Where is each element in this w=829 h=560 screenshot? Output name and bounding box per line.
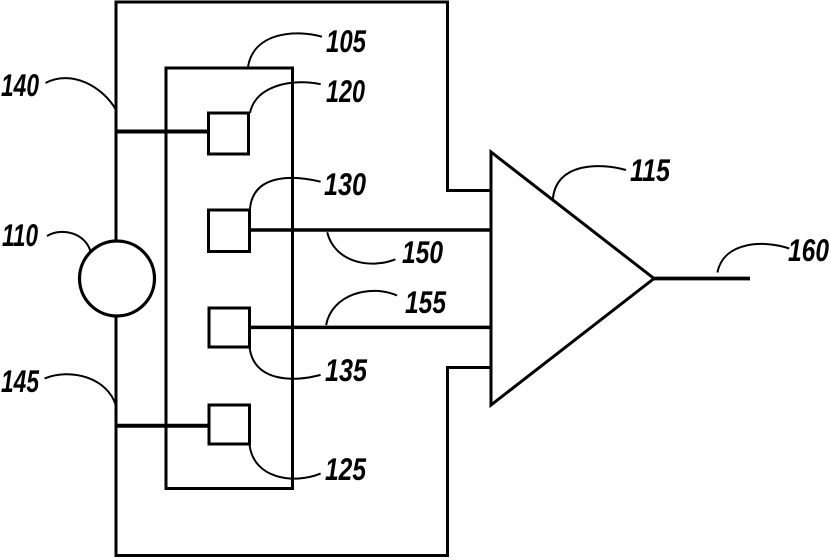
square 125 xyxy=(209,405,250,444)
wire from square 135 to amplifier input xyxy=(248,326,491,330)
square 135 xyxy=(209,308,250,347)
output wire 160 xyxy=(652,277,750,281)
square 130 xyxy=(209,210,250,252)
svg-text:150: 150 xyxy=(402,234,443,270)
svg-text:120: 120 xyxy=(326,73,365,109)
svg-text:110: 110 xyxy=(2,217,38,253)
amplifier triangle 115 xyxy=(491,152,654,405)
outer block boundary with notch for amplifier xyxy=(116,2,491,556)
svg-text:140: 140 xyxy=(1,67,39,103)
leader line for label 160 xyxy=(717,244,789,273)
leader line for label 120 xyxy=(250,82,321,113)
leader line for label 105 xyxy=(248,33,322,67)
leader line for label 110 xyxy=(47,232,90,251)
circle 110 (source) xyxy=(80,241,155,316)
svg-text:115: 115 xyxy=(630,152,670,188)
leader line for label 150 xyxy=(327,232,395,263)
leader line for label 130 xyxy=(250,178,321,210)
wire from square 130 to amplifier input xyxy=(248,228,491,232)
inner block 105 xyxy=(166,68,293,489)
svg-text:160: 160 xyxy=(788,232,829,268)
square 120 xyxy=(209,113,249,154)
leader line for label 115 xyxy=(553,166,626,198)
wire from left bus to square 120 xyxy=(116,130,210,134)
leader line for label 145 xyxy=(45,374,117,406)
leader line for label 135 xyxy=(250,347,321,379)
wire from left bus to square 125 xyxy=(116,424,211,428)
leader line for label 140 xyxy=(46,78,117,110)
svg-text:155: 155 xyxy=(405,284,446,320)
svg-text:125: 125 xyxy=(325,451,366,487)
leader line for label 125 xyxy=(250,445,321,479)
leader line for label 155 xyxy=(326,291,397,325)
svg-text:135: 135 xyxy=(325,352,367,388)
svg-text:130: 130 xyxy=(324,166,366,202)
svg-text:105: 105 xyxy=(326,23,366,59)
svg-text:145: 145 xyxy=(1,363,39,399)
